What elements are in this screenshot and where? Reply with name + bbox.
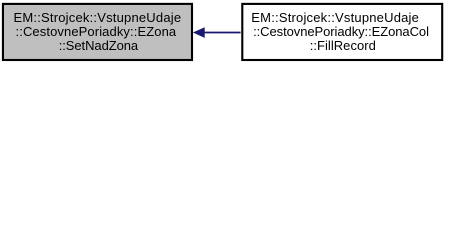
svg-text:::SetNadZona: ::SetNadZona	[59, 38, 139, 53]
svg-text:::FillRecord: ::FillRecord	[310, 38, 376, 53]
svg-text:::CestovnePoriadky::EZonaCol: ::CestovnePoriadky::EZonaCol	[253, 24, 429, 39]
svg-text:EM::Strojcek::VstupneUdaje: EM::Strojcek::VstupneUdaje	[14, 10, 182, 25]
node EZona::SetNadZona (current, grey)	[3, 4, 192, 60]
svg-text:EM::Strojcek::VstupneUdaje: EM::Strojcek::VstupneUdaje	[251, 10, 419, 25]
svg-text:::CestovnePoriadky::EZona: ::CestovnePoriadky::EZona	[16, 24, 177, 39]
edge arrow (caller -> current)	[193, 27, 241, 38]
node EZonaCol::FillRecord (caller, white)	[242, 4, 442, 60]
